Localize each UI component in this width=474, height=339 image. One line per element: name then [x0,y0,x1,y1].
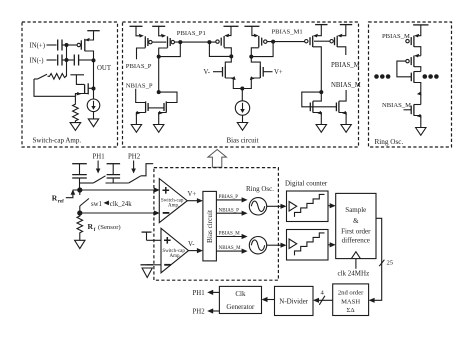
svg-text:V-: V- [204,69,211,76]
dashed box: Ring Osc. [369,22,452,147]
oscillator symbol 2 [249,237,266,254]
node PBIAS_P1 tap [207,40,211,44]
ground under MG [316,125,326,133]
node PBIAS_M1 left [271,40,275,44]
dashed box: chip [154,168,279,281]
ground under I2 [237,123,247,131]
ground under RN2 [416,128,426,136]
svg-text:PBIAS_P1: PBIAS_P1 [177,30,206,37]
dashed box: Switch-cap Amp. [22,22,118,147]
svg-text:Clk: Clk [235,290,246,298]
wire to amp2 plus [147,239,162,241]
node Rref [77,187,82,192]
switch SW-PH2 [129,176,141,183]
svg-text:PBIAS_M1: PBIAS_M1 [272,29,303,36]
box Bias circuit (block) [203,191,217,261]
svg-text:difference: difference [342,236,370,244]
node M2 drain on OUT line [92,87,96,91]
transistor ME (PMOS) [305,25,322,93]
svg-text:PBIAS_M: PBIAS_M [382,33,410,40]
transistor MF (PMOS) [330,25,346,55]
svg-text:25: 25 [387,260,394,267]
wire feedback left side [34,79,75,96]
wire gate link MG1-MG2 [148,107,164,109]
svg-text:(Sensor): (Sensor) [98,224,121,231]
svg-text:Ring Osc.: Ring Osc. [246,185,274,193]
box Clk Generator [219,286,261,313]
op-amp U2 [161,228,189,272]
ground under MG2 [154,125,164,133]
box N-Divider [275,286,314,315]
wire PBIAS_M1 to ME [273,41,305,43]
svg-text:NBIAS_P: NBIAS_P [219,208,240,213]
capacitor C1 [58,40,62,51]
ground open under Rf [75,240,85,248]
VDD bar of MD [244,25,259,27]
wire tail to current source [241,89,243,102]
svg-text:Digital counter: Digital counter [285,180,328,188]
wire MB diode connection [159,42,181,57]
buffer in counter 1 [289,202,297,212]
arrow into amp1 minus [154,210,160,215]
wire PBIAS_M out [216,234,247,239]
wire C2 to node B [62,59,67,61]
node tail [240,87,244,91]
svg-text:NBIAS_M: NBIAS_M [331,82,361,89]
svg-text:IN(-): IN(-) [30,58,44,65]
dashed box: Bias circuit [123,22,359,147]
svg-text:clk 24MHz: clk 24MHz [338,270,370,278]
box MASH [333,284,369,316]
capacitor C2 [58,55,62,66]
resistor Rfb (horizontal) [48,74,67,80]
svg-text:NBIAS_M: NBIAS_M [219,246,242,251]
wire OUT down [93,60,95,99]
wire between switches [106,182,129,184]
svg-text:V+: V+ [188,191,197,198]
svg-text:ΣΔ: ΣΔ [347,307,355,314]
svg-text:Switch-cap Amp.: Switch-cap Amp. [33,137,82,145]
wire NBIAS_P out [216,211,247,216]
wire NBIAS_M out [216,249,247,254]
node NBIAS [157,90,161,94]
wire to amp2 minus [147,264,161,266]
wire osc1 to counter1 [267,204,287,209]
wire V- gate [213,71,223,73]
capacitor CS2 [107,164,121,183]
switch sw1 [80,190,89,213]
wire counter2 to sample [328,242,336,247]
wire NBIAS diode loop [159,92,177,102]
wire amp2 out to bias box [189,248,203,253]
arrow PH1 [96,161,101,174]
clock wedge on Sample box [351,252,360,259]
op-amp U1 [159,179,187,223]
svg-text:ref: ref [58,200,64,205]
ground under I1 [88,119,98,127]
staircase 2 [295,233,325,256]
bus slash 25 [379,260,384,267]
transistor MG (NMOS diode) [310,92,322,124]
VDD bar of MA [130,25,143,27]
dots right [423,74,439,79]
wire PBIAS_P1 to MC drain [209,42,231,56]
node ME drain [319,90,323,94]
wire C1 to node A [62,44,67,46]
dots left [374,74,390,79]
wire ndivider to clkgen [262,297,275,302]
capacitor C3 [67,55,94,66]
transistor MB (PMOS diode) [159,26,175,56]
node B [65,58,69,62]
transistor M2 (NMOS) [75,83,93,102]
transistor RP1 (PMOS) [406,25,421,56]
wire MH drain stub [339,90,346,101]
svg-text:Generator: Generator [226,303,255,311]
ground stub op-amp2 [141,265,154,278]
svg-text:NBIAS_M: NBIAS_M [382,102,411,109]
svg-text:NBIAS_P: NBIAS_P [126,82,153,89]
svg-text:PBIAS_M: PBIAS_M [219,232,241,237]
arrow into amp1 plus [154,187,160,192]
wire MA gate to MB [152,41,166,43]
node MB drain [157,55,161,59]
current source I1 [87,99,100,112]
oscillator symbol 1 [249,198,266,215]
svg-text:Sample: Sample [345,206,366,214]
node MD drain [249,55,253,59]
switch SW-PH1 [80,176,106,183]
svg-text:Amp.: Amp. [170,254,181,259]
arrow clk_24k [104,201,110,206]
wire IN(+) to C1 [47,44,57,46]
svg-text:PBIAS_M: PBIAS_M [331,62,360,69]
wire PBIAS_P1 [180,41,216,43]
transistor MG1 (NMOS) [136,89,149,125]
block arrow (bias to chip) [208,150,227,168]
wire IN(-) to C2 [47,59,57,61]
wire sample to mash [369,218,382,303]
wire M2 gate top [70,75,84,85]
label Rf (Sensor) [88,222,121,233]
svg-text:PBIAS_P: PBIAS_P [126,63,152,70]
svg-text:R: R [88,222,94,231]
VDD bar of M1 [87,30,99,32]
svg-text:&: & [353,217,359,225]
transistor MG2 (NMOS diode) [158,101,166,124]
box counter 2 [287,230,329,261]
node MC drain [229,54,233,58]
wire MD diode connection [251,42,273,57]
transistor RN1 (NMOS inverter) [411,71,421,104]
svg-text:PH1: PH1 [193,290,205,297]
svg-text:Bias circuit: Bias circuit [227,137,259,145]
svg-text:clk_24k: clk_24k [110,201,132,208]
wire I2 to ground [242,115,244,122]
wire node A to M1 gate [67,44,78,46]
svg-text:PH2: PH2 [128,154,141,161]
arrow Rref pointer [66,189,75,197]
VDD bar of MF [340,24,352,26]
transistor MC (PMOS) [216,26,232,56]
transistor M1 (PMOS, gate bubble) [77,31,93,60]
transistor MA (PMOS) [136,26,152,59]
wire ME to MF gate [314,40,330,42]
wire osc2 to counter2 [267,243,287,248]
svg-text:PH2: PH2 [193,309,206,316]
wire clk 24MHz [355,259,357,269]
transistor MT2 (NMOS V+) [242,57,263,89]
transistor RN2 (NMOS) [411,104,421,127]
current source I2 [235,101,249,115]
box Sample [336,193,376,258]
wire NBIAS_M gate [404,109,412,111]
wire PH2 out [207,308,219,313]
node OUT [92,58,96,62]
svg-text:IN(+): IN(+) [30,43,46,50]
wire node Rref to amp [73,189,157,191]
VDD bar of MC [224,25,239,27]
wire amp1 out to bias box [187,198,203,203]
svg-text:First order: First order [341,227,371,235]
svg-text:V-: V- [188,241,195,248]
transistor MD (PMOS) [251,26,267,56]
wire MB drain down to NBIAS node [158,57,160,93]
svg-text:MASH: MASH [341,298,360,305]
svg-text:2nd order: 2nd order [338,290,364,297]
wire I1 to ground [93,112,95,119]
wire PH1 out [207,290,219,295]
buffer in counter 2 [289,239,297,249]
switch S1 (feedback) [34,74,47,79]
transistor MT1 (NMOS V-) [223,56,243,88]
wire inverter gate loop [397,61,411,77]
wire switch 2 to VDD stub [141,164,153,176]
svg-text:Bias circuit: Bias circuit [206,210,214,243]
ground under MH [341,125,351,133]
label Rref [52,194,64,205]
svg-text:V+: V+ [274,69,283,76]
wire V+ gate [263,71,272,73]
ground under MG1 [131,125,141,133]
ground under R1 [70,123,81,131]
resistor R1 (vertical) [73,103,79,123]
wire mash to ndivider [313,298,333,303]
wire node Rf to amp [80,212,157,214]
VDD bar of ME [315,24,327,26]
svg-text:PH1: PH1 [93,154,105,161]
VDD stub op-amp2 [142,232,152,240]
wire PBIAS_P out [216,197,247,202]
node PBIAS_P1 left [178,40,182,44]
transistor MH (NMOS) [336,101,347,124]
staircase 1 [295,194,325,217]
wire counter1 to sample [328,203,336,208]
svg-text:OUT: OUT [97,65,112,72]
node A [65,43,69,47]
VDD bar of MB [152,25,165,27]
VDD bar ring [413,24,428,26]
svg-text:Amp.: Amp. [168,204,179,209]
wire MG diode loop [302,92,322,107]
svg-text:PBIAS_P: PBIAS_P [219,195,239,200]
wire gate link MG-MH [310,106,336,108]
svg-text:sw1: sw1 [91,201,102,208]
box counter 1 [287,191,329,222]
node Rf [77,210,82,215]
transistor RP2 (PMOS inverter) [406,54,421,72]
svg-text:N-Divider: N-Divider [279,298,308,306]
resistor Rf (Sensor) [77,213,83,241]
arrow PH2 [131,161,136,174]
bus slash 4 [319,296,325,305]
capacitor CS1 [72,164,87,190]
wire node A to node B to feedback resistor [66,45,68,76]
svg-text:Ring Osc.: Ring Osc. [375,138,404,146]
